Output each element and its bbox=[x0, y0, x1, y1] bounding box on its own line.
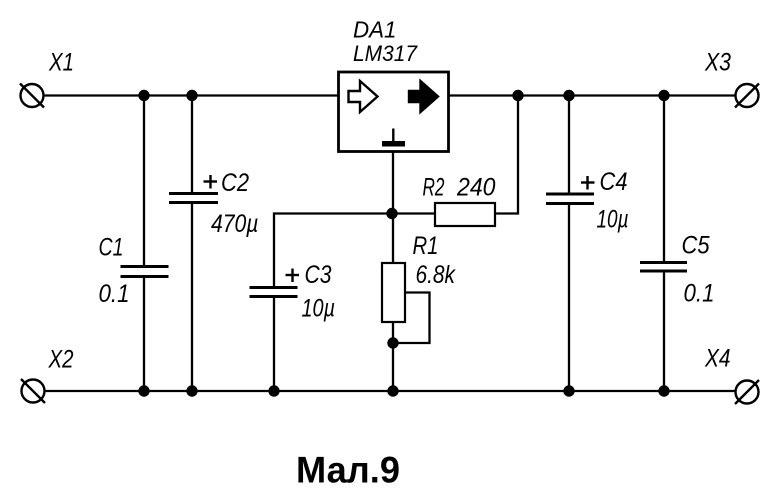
wire C2 branch lower bbox=[191, 202, 193, 391]
junction top C4 bbox=[563, 90, 574, 101]
junction top R2 bbox=[512, 90, 523, 101]
wire R2 left bbox=[392, 212, 435, 214]
svg-text:C3: C3 bbox=[305, 261, 332, 289]
wire C2 branch upper bbox=[191, 96, 193, 195]
wire C5 branch lower bbox=[663, 271, 665, 391]
svg-text:C2: C2 bbox=[221, 169, 249, 197]
junction bottom C4 bbox=[563, 385, 574, 396]
terminal X3 bbox=[735, 84, 759, 108]
junction bottom C5 bbox=[658, 385, 669, 396]
wire bottom rail bbox=[45, 390, 736, 392]
svg-text:6.8k: 6.8k bbox=[416, 261, 457, 289]
wire C4 branch lower bbox=[568, 203, 570, 391]
svg-text:C5: C5 bbox=[682, 232, 710, 260]
junction bottom C3 bbox=[268, 385, 279, 396]
junction R1 tap bbox=[387, 337, 398, 348]
svg-text:10µ: 10µ bbox=[302, 295, 336, 323]
svg-text:0.1: 0.1 bbox=[99, 280, 130, 308]
wire C1 branch upper bbox=[143, 96, 145, 268]
junction node A (ADJ) bbox=[386, 208, 397, 219]
terminal X1 bbox=[20, 84, 44, 108]
svg-text:DA1: DA1 bbox=[353, 17, 397, 43]
junction top C1 bbox=[138, 90, 149, 101]
capacitor C4 bbox=[546, 194, 594, 204]
junction bottom C2 bbox=[186, 385, 197, 396]
capacitor C1 bbox=[121, 267, 169, 277]
svg-text:X3: X3 bbox=[704, 49, 731, 77]
op-amp U1 box (DA1) bbox=[339, 72, 449, 152]
ground symbol inside DA1 bbox=[382, 129, 405, 147]
svg-text:X4: X4 bbox=[704, 345, 730, 373]
svg-text:LM317: LM317 bbox=[353, 41, 418, 66]
terminal X4 bbox=[735, 380, 759, 404]
svg-text:R2: R2 bbox=[423, 174, 445, 202]
wire R1 bottom bbox=[392, 322, 394, 391]
svg-text:C4: C4 bbox=[600, 168, 628, 196]
svg-text:X1: X1 bbox=[48, 49, 74, 77]
svg-text:470µ: 470µ bbox=[211, 210, 259, 238]
DA1 output arrow (filled) bbox=[409, 81, 438, 112]
svg-text:0.1: 0.1 bbox=[684, 280, 715, 308]
svg-text:Мал.9: Мал.9 bbox=[296, 449, 400, 491]
wire R1 tap bbox=[393, 293, 430, 344]
resistor R1 bbox=[382, 263, 405, 322]
capacitor C2 bbox=[169, 194, 218, 203]
DA1 input arrow (hollow) bbox=[349, 81, 378, 112]
junction bottom C1 bbox=[138, 385, 149, 396]
capacitor C5 bbox=[640, 263, 687, 272]
wire R2 right to output bbox=[495, 96, 518, 214]
wire top rail bbox=[44, 94, 736, 96]
svg-text:R1: R1 bbox=[413, 232, 439, 260]
wire C1 branch lower bbox=[143, 276, 145, 391]
junction top C5 bbox=[658, 90, 669, 101]
wire C4 branch upper bbox=[568, 96, 570, 195]
capacitor C3 bbox=[250, 288, 298, 297]
C2 plus sign bbox=[204, 175, 218, 189]
terminal X2 bbox=[21, 379, 45, 403]
svg-text:10µ: 10µ bbox=[597, 206, 629, 234]
wire C3 branch lower bbox=[273, 296, 275, 391]
svg-text:X2: X2 bbox=[48, 346, 74, 374]
wire C3 branch upper bbox=[274, 214, 392, 288]
wire C5 branch upper bbox=[663, 96, 665, 263]
C3 plus sign bbox=[286, 269, 300, 283]
resistor R2 bbox=[435, 203, 495, 226]
C4 plus sign bbox=[581, 176, 595, 190]
svg-text:C1: C1 bbox=[99, 234, 124, 262]
svg-text:240: 240 bbox=[456, 174, 496, 202]
wire DA1 pin to node A bbox=[392, 151, 394, 263]
junction bottom R1 bbox=[387, 385, 398, 396]
junction top C2 bbox=[186, 90, 197, 101]
